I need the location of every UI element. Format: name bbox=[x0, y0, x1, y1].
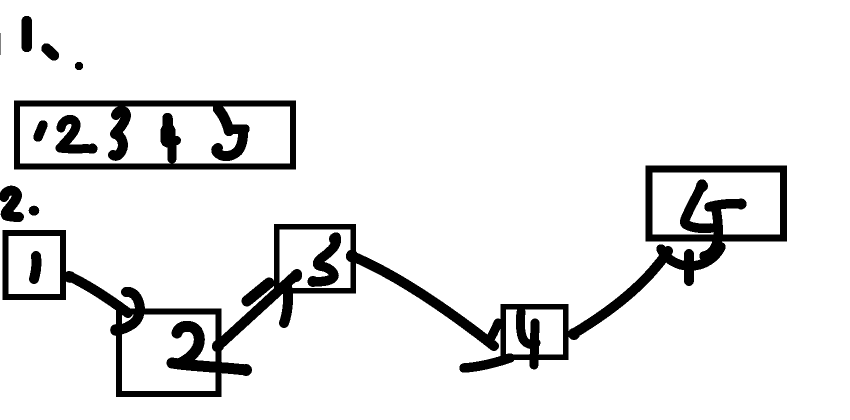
arrow 2 to 3 head bbox=[247, 283, 288, 323]
digit 3 in box 3 bbox=[308, 233, 342, 287]
node box 3 bbox=[277, 227, 354, 291]
array digit 5 bbox=[216, 109, 245, 156]
node box 1 bbox=[5, 233, 63, 297]
node box 5 bbox=[649, 169, 784, 238]
arrow 2 to 3 line bbox=[212, 270, 302, 352]
node box 2 bbox=[119, 312, 219, 395]
arrow 1 to 2 head hook bbox=[110, 292, 140, 336]
arrow 4 to 5 head bbox=[661, 247, 721, 281]
array digit 1 bbox=[38, 125, 43, 137]
array digit 4 bbox=[168, 118, 182, 159]
arrow 4 to 5 line bbox=[568, 251, 668, 340]
edge artifact gray line bbox=[0, 33, 1, 55]
array rectangle bbox=[17, 104, 293, 167]
array digit 2 bbox=[60, 119, 98, 153]
label 2. bbox=[4, 191, 39, 217]
digit 5 in box 5 bbox=[685, 180, 747, 256]
digit 4 in box 4 bbox=[520, 312, 536, 365]
arrow 3 to 4 line bbox=[346, 250, 494, 346]
arrow 3 to 4 head bbox=[464, 323, 510, 368]
node box 4 bbox=[503, 307, 566, 357]
digit 2 in box 2 bbox=[172, 326, 252, 376]
label 1. bbox=[27, 21, 83, 70]
digit 1 in box 1 bbox=[34, 256, 36, 279]
arrow 1 to 2 line bbox=[64, 271, 128, 313]
array digit 3 bbox=[113, 111, 126, 156]
